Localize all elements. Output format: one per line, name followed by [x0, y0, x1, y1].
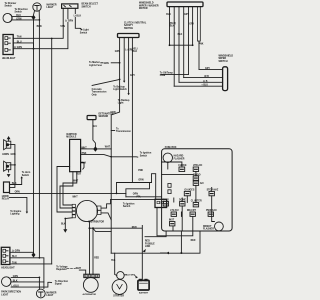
connector squares left: [168, 184, 171, 188]
label WHT on vertical: [105, 146, 111, 148]
internal wires: [174, 198, 182, 202]
label WINDSHIELD WIPER SWITCH: [219, 55, 234, 62]
svg-text:Lt GRN: Lt GRN: [14, 46, 22, 49]
wire Lt GRN headlight to dimmer switch: [13, 9, 68, 49]
wire BLK park2 to marker2 right lead: [11, 282, 44, 289]
fuse HTR-A/C: [193, 164, 203, 167]
wire GRN park2 to trunk B: [11, 276, 39, 278]
lead 2: [123, 38, 125, 82]
junction dot on trunk B: [39, 19, 41, 21]
wire trunk B into marker2: [38, 277, 40, 289]
wire staircase to ORN line: [126, 183, 150, 197]
label HORN RELAY: [2, 196, 10, 201]
lead 1: [169, 7, 171, 46]
svg-text:+ BLU: + BLU: [201, 85, 208, 87]
label WINDSHIELD WIPER/WASHER MOTOR: [139, 3, 159, 10]
svg-text:FUSIBLE: FUSIBLE: [145, 243, 155, 245]
svg-text:BLK: BLK: [76, 174, 81, 176]
svg-text:SWITCH: SWITCH: [124, 28, 133, 30]
svg-text:Lt BLK: Lt BLK: [74, 14, 82, 17]
junction dot lead4 on ORN: [116, 193, 118, 195]
wire RED distributor to battery: [90, 225, 143, 279]
svg-text:SAFETY: SAFETY: [124, 24, 134, 27]
svg-text:BEAM SELECT: BEAM SELECT: [82, 3, 99, 6]
svg-text:GRY: GRY: [189, 24, 194, 26]
label FUSE BOX: [165, 147, 177, 149]
label BLK: [12, 183, 17, 185]
text To Transmission: [116, 128, 131, 133]
svg-text:IGNITION: IGNITION: [66, 134, 77, 136]
svg-text:HTR-A/C: HTR-A/C: [193, 164, 203, 167]
svg-text:MODULE: MODULE: [66, 137, 76, 139]
svg-text:PNK: PNK: [138, 170, 143, 172]
svg-text:Lt B: Lt B: [203, 80, 208, 83]
arrow connector on strap: [166, 252, 169, 255]
junction dot TAN trunk C: [51, 38, 53, 40]
fuse box outline: [162, 149, 233, 231]
wire GRY strap to switch: [199, 68, 223, 70]
wire horn2 to trunk: [10, 164, 15, 166]
arrow blob at battery crossing: [143, 249, 146, 252]
text To Direction Signal: [55, 280, 69, 286]
svg-text:To Voltage: To Voltage: [56, 266, 68, 269]
wire to fuse box lower: [126, 196, 162, 198]
label WHT on long wire: [72, 197, 78, 199]
junction dot horn trunk: [14, 164, 16, 166]
svg-text:Lt BLU: Lt BLU: [12, 285, 20, 288]
svg-text:STARTER: STARTER: [113, 295, 124, 298]
wire fuse box drop: [180, 231, 182, 253]
wire TAN to trunk C corner: [10, 263, 52, 265]
svg-text:To Horn: To Horn: [22, 172, 31, 174]
svg-text:HAZARD: HAZARD: [174, 155, 184, 158]
wire starter to battery BLK WHT: [124, 274, 125, 276]
accessory chain vertical: [195, 172, 197, 203]
wire choke feed: [162, 162, 182, 167]
svg-text:LINK: LINK: [145, 246, 151, 248]
svg-text:BLK: BLK: [61, 224, 66, 226]
svg-text:CLUTCH / NEUTRAL: CLUTCH / NEUTRAL: [124, 22, 147, 25]
svg-text:To: To: [116, 128, 119, 130]
svg-text:BLU: BLU: [92, 126, 97, 128]
svg-text:ORN: ORN: [15, 192, 20, 194]
svg-text:SWITCH: SWITCH: [219, 61, 228, 63]
marker light M1: [33, 3, 41, 11]
wire marker light left lead / trunk A: [34, 11, 35, 253]
fuse CLUSTER: [191, 201, 202, 203]
lead 4 long with jog: [117, 38, 152, 194]
svg-text:To Engine: To Engine: [10, 211, 22, 213]
lead 6: [192, 7, 194, 46]
svg-text:GRY: GRY: [130, 75, 135, 77]
wire BLU park light to trunk A diamond: [12, 16, 32, 18]
svg-text:To Backup: To Backup: [113, 86, 125, 88]
svg-text:Fuse: Fuse: [160, 75, 166, 77]
wire ORN relay to fuse box: [10, 192, 126, 194]
label PNK strap end: [199, 44, 204, 46]
svg-text:Transmission: Transmission: [116, 131, 131, 133]
svg-text:Switch: Switch: [5, 5, 13, 8]
svg-text:BLK: BLK: [178, 34, 183, 36]
text Colorado Transmission Only: [92, 89, 107, 96]
label RED: [132, 227, 137, 229]
park/direction light P1: [3, 13, 12, 22]
fuse INST: [169, 220, 175, 222]
junction diamond D1 on trunk A: [32, 15, 36, 20]
label GRN: [16, 18, 21, 20]
label BLU: [16, 15, 21, 17]
svg-text:MOTOR: MOTOR: [139, 8, 148, 10]
ignition module U1: [70, 139, 81, 171]
svg-text:Transmission: Transmission: [92, 92, 107, 94]
distributor left terminals: [72, 204, 75, 218]
label BLK module lower: [81, 163, 86, 165]
wire Lt BLU park2 going right: [11, 282, 52, 287]
fuse TAIL: [193, 181, 198, 185]
wire TAN headlight to dimmer switch: [13, 9, 63, 39]
svg-text:Light Switch: Light Switch: [113, 88, 127, 91]
wire terminal 2 to main vertical: [101, 213, 111, 220]
ground wire below distributor: [64, 219, 66, 230]
svg-text:SENSOR: SENSOR: [99, 116, 109, 118]
svg-text:GRN: GRN: [110, 112, 115, 114]
svg-text:HEADLIGHT: HEADLIGHT: [1, 267, 15, 270]
wire horn1 to trunk: [10, 145, 15, 188]
wire marker light right lead / trunk B: [38, 11, 40, 258]
label CLUTCH NEUTRAL SAFETY SWITCH: [124, 22, 147, 30]
detonation sensor: [87, 116, 96, 120]
fuse GAUGES: [184, 189, 194, 192]
svg-text:To Ignition: To Ignition: [123, 202, 135, 205]
svg-text:W-B: W-B: [204, 76, 209, 78]
label BLU: [17, 41, 22, 43]
text To Ignition Switch: [123, 202, 135, 208]
svg-text:RED: RED: [191, 240, 196, 242]
svg-text:DIRECT: DIRECT: [203, 226, 212, 228]
svg-text:PNK: PNK: [82, 153, 87, 155]
svg-text:Switch: Switch: [140, 154, 148, 157]
svg-text:LIGHT: LIGHT: [46, 295, 53, 297]
svg-text:BLK: BLK: [170, 26, 175, 28]
svg-text:LIGHT: LIGHT: [1, 294, 8, 296]
svg-text:To Light: To Light: [80, 29, 89, 32]
wire GRN park light to trunk B dot: [12, 19, 39, 21]
lead 5: [188, 7, 190, 75]
wire Lt GRN to trunk A diamond: [10, 251, 34, 253]
text To Dimmer Switch: [5, 3, 17, 8]
svg-text:BLK: BLK: [166, 14, 171, 16]
svg-text:To Oil/Temp: To Oil/Temp: [160, 72, 174, 74]
module left routing wire: [57, 167, 72, 213]
label TAN: [17, 36, 22, 39]
marker light M2: [36, 289, 45, 298]
text To Voltage Regulator: [56, 266, 68, 272]
svg-text:CHOKE: CHOKE: [178, 165, 187, 167]
svg-text:MARKER: MARKER: [46, 291, 56, 294]
svg-text:BLK: BLK: [133, 51, 138, 53]
label BLK: [61, 224, 66, 226]
label ORN: [15, 192, 20, 194]
wire Lt BLK lead: [75, 9, 82, 30]
svg-text:GRY: GRY: [205, 68, 210, 70]
svg-text:BLK: BLK: [13, 280, 18, 282]
svg-text:ORN: ORN: [133, 193, 138, 195]
svg-text:GRN: GRN: [13, 276, 18, 278]
wire regulator to alternator: [79, 270, 85, 274]
label DISTRIBUTOR: [88, 222, 104, 224]
fuse value marks: [165, 169, 214, 223]
fuse DOME: [179, 200, 186, 202]
svg-text:GRY: GRY: [184, 14, 189, 16]
label TAN: [12, 261, 17, 264]
label Lt GRN: [12, 250, 20, 253]
wire To Engine Lighting bracket: [10, 197, 27, 211]
wire sub line to ground strap: [93, 228, 111, 253]
svg-text:Signal: Signal: [55, 284, 62, 286]
label BLU: [92, 126, 97, 128]
wiper motor bar: [167, 2, 203, 7]
label Lt GRN lead: [65, 20, 73, 23]
svg-text:Switch: Switch: [80, 31, 88, 34]
svg-text:GRN: GRN: [16, 18, 21, 20]
junction dot LtGRN trunk A: [33, 48, 35, 50]
svg-text:PNK: PNK: [199, 44, 204, 46]
module bottom leads: [60, 172, 73, 208]
svg-text:PARK DIRECTION: PARK DIRECTION: [1, 291, 21, 294]
label HEADLIGHT: [1, 267, 15, 270]
junction dot trunk B on BLU: [39, 257, 41, 259]
text To Engine Lighting: [10, 211, 22, 216]
wire coil feed staircase from terminal 1: [101, 199, 155, 208]
lead 2: [173, 7, 175, 87]
svg-text:To Direction: To Direction: [15, 8, 29, 11]
wire trunk C: [51, 39, 53, 264]
svg-text:WHT: WHT: [81, 147, 87, 149]
fuse STOP-HAZ: [207, 189, 219, 192]
svg-text:ALTERNATOR: ALTERNATOR: [83, 293, 97, 296]
text To Light Switch: [80, 29, 89, 35]
svg-text:RED: RED: [132, 227, 137, 229]
svg-text:WHT: WHT: [73, 181, 79, 183]
dimmer (beam select) switch: [62, 4, 78, 8]
wire lead4 to switch: [184, 77, 223, 79]
svg-text:YEL/: YEL/: [133, 48, 138, 50]
headlight H2: [1, 247, 10, 264]
wire oil fuse line: [161, 73, 189, 75]
svg-text:FLASHER: FLASHER: [203, 228, 214, 231]
text To Horn Switch: [22, 172, 31, 177]
wire starter feed: [115, 253, 117, 275]
ground symbol: [63, 229, 67, 233]
wire BLU sensor to diamond: [93, 120, 96, 147]
clutch safety switch: [118, 34, 140, 38]
label Lt BLK: [74, 14, 82, 17]
label HEADLIGHT: [2, 57, 16, 60]
svg-text:A/C: A/C: [200, 182, 204, 185]
wire lead3 to switch: [179, 81, 223, 83]
distributor: [76, 200, 97, 221]
svg-text:To Marker: To Marker: [89, 62, 100, 64]
svg-text:Lt GRN: Lt GRN: [12, 250, 20, 253]
svg-text:BLK: BLK: [12, 183, 17, 185]
svg-text:SWITCH: SWITCH: [82, 6, 91, 8]
svg-text:RED: RED: [145, 241, 150, 243]
svg-text:WHT: WHT: [72, 197, 78, 199]
svg-text:TAN: TAN: [60, 25, 65, 28]
diagonal annotation Colorado: [92, 80, 119, 86]
wire BLK stub module: [81, 163, 84, 170]
junction dot PNK on GRN vertical: [110, 156, 112, 158]
wire BLU headlight to trunk A: [13, 43, 33, 49]
svg-text:Colorado: Colorado: [92, 89, 103, 91]
label RED FUSIBLE LINK: [145, 241, 155, 248]
svg-text:(BLU): (BLU): [170, 23, 176, 25]
lead 3: [178, 7, 180, 83]
svg-text:Only: Only: [92, 94, 98, 96]
lead labels: [166, 14, 194, 36]
svg-text:ORN: ORN: [138, 180, 143, 182]
svg-text:WINDSHIELD: WINDSHIELD: [219, 55, 234, 57]
label HORN GRN: [2, 154, 16, 156]
label MARKER LIGHT: [46, 291, 56, 297]
svg-text:TAN: TAN: [17, 36, 22, 39]
svg-text:MARKER: MARKER: [47, 4, 57, 7]
svg-text:LIGHT: LIGHT: [47, 7, 54, 9]
wire BLU to x=43.9 drop: [10, 258, 44, 282]
connector diamond: [93, 146, 97, 151]
svg-text:DISTRIBUTOR: DISTRIBUTOR: [88, 222, 104, 224]
fuse RADIO: [193, 173, 201, 176]
lead 4: [183, 7, 185, 78]
labels BLK WHT under module: [73, 174, 81, 183]
svg-text:HORN: HORN: [2, 154, 9, 156]
text To Marker Lights Fuse + GRN link: [89, 62, 103, 67]
text To Backup Light Switch: [113, 86, 127, 91]
svg-text:To Ignition: To Ignition: [140, 152, 152, 155]
svg-text:GRN: GRN: [115, 51, 120, 53]
label Lt GRN: [14, 46, 22, 49]
svg-text:BATTERY: BATTERY: [139, 291, 149, 294]
horn 2: [4, 161, 11, 177]
feed into radio: [162, 174, 194, 176]
fuse LTG BU: [170, 210, 179, 212]
svg-text:WINDSHIELD: WINDSHIELD: [139, 3, 154, 5]
svg-text:BLK: BLK: [81, 163, 86, 165]
jumper wire y=45: [170, 44, 193, 46]
svg-text:BLU: BLU: [17, 41, 22, 43]
svg-text:Switch: Switch: [123, 205, 131, 208]
wiper switch: [223, 67, 228, 91]
svg-text:Switch: Switch: [22, 174, 30, 177]
svg-text:HEADLIGHT: HEADLIGHT: [2, 57, 16, 60]
fuse CLUS: [163, 200, 170, 202]
junction diamond trunk A end: [32, 252, 36, 257]
horn 1: [4, 136, 11, 150]
fuse DOME-COURT: [187, 210, 197, 212]
svg-text:YEL: YEL: [111, 260, 116, 262]
svg-text:WIPER: WIPER: [219, 58, 227, 60]
lead 3: [128, 38, 130, 94]
wire fuse box to coil box: [157, 208, 193, 236]
wire ground strap y=253: [111, 231, 200, 253]
svg-text:WIPER / WASHER: WIPER / WASHER: [139, 4, 159, 7]
svg-text:TAN: TAN: [12, 261, 17, 264]
svg-text:HORN: HORN: [2, 196, 9, 198]
svg-text:GRN: GRN: [104, 63, 109, 65]
wire left terminals to ground: [65, 217, 72, 220]
fuse CHOKE: [178, 165, 187, 167]
distributor right terminals: [97, 206, 101, 215]
label PARK DIRECTION LIGHT: [1, 291, 21, 297]
label BRN: [37, 26, 42, 28]
text To Backup Light: [118, 100, 130, 105]
starter: [117, 272, 125, 280]
lead 1 GRN long: [111, 38, 119, 232]
direct flasher: [203, 226, 214, 231]
svg-text:WHT: WHT: [105, 146, 111, 148]
svg-text:BLU: BLU: [12, 256, 17, 258]
alternator feed wires: [90, 228, 94, 274]
text To Oil/Temp Fuse: [160, 72, 174, 77]
svg-text:RED: RED: [94, 258, 99, 260]
svg-text:Regulator: Regulator: [56, 268, 67, 271]
dot junction strap/fusebox drop: [180, 252, 182, 254]
svg-text:RELAY: RELAY: [2, 198, 10, 201]
headlight H1: [3, 35, 13, 55]
text To Ignition Switch upper: [140, 152, 152, 158]
svg-text:Light: Light: [118, 102, 124, 105]
park/direction light P2: [2, 277, 12, 287]
label BEAM SELECT SWITCH: [82, 3, 99, 9]
wire WHT module to diamond: [81, 148, 94, 150]
wire lead2 to switch: [174, 85, 222, 87]
svg-text:PPL: PPL: [137, 196, 142, 198]
alternator: [84, 274, 99, 277]
svg-text:Switch: Switch: [15, 11, 23, 14]
ignition coil connector box: [155, 199, 167, 207]
wire PNK module to ignition switch arrow: [81, 155, 138, 158]
wire TAN lead label: [60, 25, 65, 28]
wire distributor bottom to red line: [89, 222, 91, 229]
wire diamond to main vertical: [98, 148, 112, 150]
label MARKER LIGHT: [47, 4, 57, 10]
wire BLK relay to horn switch: [10, 178, 22, 185]
svg-text:FLASHER: FLASHER: [174, 157, 185, 160]
lead 7 thick strap: [198, 7, 201, 42]
svg-text:Lights Fuse: Lights Fuse: [89, 64, 103, 67]
fuse PWR ACC: [206, 209, 217, 212]
horn relay: [4, 182, 10, 193]
svg-text:To Backup: To Backup: [118, 100, 130, 102]
svg-text:BLK WHT: BLK WHT: [126, 274, 136, 276]
label BLU: [12, 256, 17, 258]
hazard flasher: [163, 153, 172, 162]
svg-text:Lighting: Lighting: [10, 213, 20, 216]
label IGNITION MODULE: [66, 134, 77, 139]
label DETONATION SENSOR: [99, 112, 114, 118]
wire coil feed from H1: [152, 174, 156, 200]
svg-text:Lt GRN: Lt GRN: [65, 20, 73, 23]
wire INST elbow below box: [145, 231, 166, 237]
label GRN at jog: [110, 112, 115, 114]
text To Direction Switch: [15, 8, 29, 14]
svg-text:To Direction: To Direction: [55, 280, 69, 283]
battery: [138, 279, 149, 290]
svg-text:BLU: BLU: [16, 15, 21, 17]
